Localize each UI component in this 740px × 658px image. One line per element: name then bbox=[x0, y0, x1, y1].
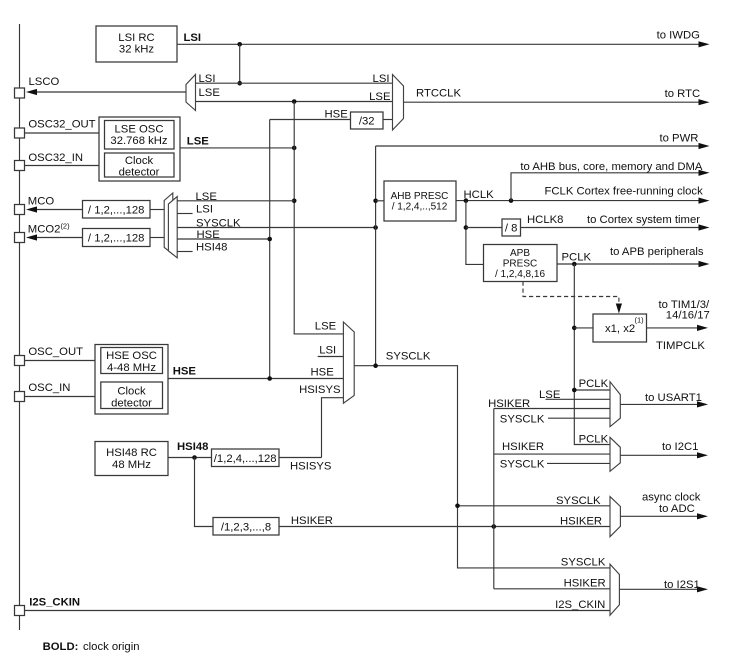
svg-text:to RTC: to RTC bbox=[665, 88, 701, 100]
mux USART1 bbox=[610, 382, 620, 427]
arrow to I2S1 bbox=[697, 586, 708, 592]
left GPIO bus line bbox=[19, 24, 21, 630]
svg-text:I2S_CKIN: I2S_CKIN bbox=[555, 599, 605, 611]
svg-text:LSE: LSE bbox=[369, 91, 391, 103]
divider MCO / 1,2,...,128 bbox=[83, 201, 151, 219]
svg-text:Clock: Clock bbox=[125, 155, 154, 167]
svg-text:HCLK: HCLK bbox=[464, 189, 495, 201]
pin MCO bbox=[15, 196, 55, 215]
arrow to TIM bbox=[697, 325, 708, 331]
svg-text:clock origin: clock origin bbox=[83, 641, 140, 653]
junction HSE at MCO branch bbox=[267, 237, 272, 242]
svg-text:LSI: LSI bbox=[199, 73, 216, 85]
divider MCO2 / 1,2,...,128 bbox=[83, 229, 151, 247]
divider HSIKER /1,2,3,...,8 bbox=[213, 518, 279, 536]
wire PCLK vertical trunk bbox=[574, 264, 610, 445]
wire into x1,x2 bbox=[574, 327, 593, 329]
svg-text:OSC_OUT: OSC_OUT bbox=[28, 346, 83, 358]
wire to I2C1 bbox=[620, 454, 697, 456]
svg-text:SYSCLK: SYSCLK bbox=[556, 495, 601, 507]
svg-text:to APB peripherals: to APB peripherals bbox=[610, 246, 704, 258]
junction LSE bbox=[292, 146, 297, 151]
svg-text:HSI48: HSI48 bbox=[177, 441, 208, 453]
svg-text:32.768 kHz: 32.768 kHz bbox=[110, 135, 167, 147]
pin MCO2 bbox=[15, 221, 71, 242]
wire HSIKER main bbox=[279, 526, 610, 528]
svg-text:HSIKER: HSIKER bbox=[560, 516, 602, 528]
arrow to USART1 bbox=[697, 401, 708, 407]
oscillator LSE OSC 32.768 kHz with clock detector bbox=[99, 117, 180, 181]
svg-text:/1,2,4,...,128: /1,2,4,...,128 bbox=[214, 453, 277, 465]
wire TIMPCLK output bbox=[647, 327, 698, 329]
junction HSIKER trunk bbox=[492, 524, 497, 529]
svg-text:LSI: LSI bbox=[319, 345, 336, 357]
arrow down into x1,x2 bbox=[616, 304, 622, 314]
svg-text:HSIKER: HSIKER bbox=[502, 441, 544, 453]
svg-text:HSE: HSE bbox=[197, 229, 221, 241]
svg-text:LSE: LSE bbox=[187, 136, 209, 148]
wire LSE input to MCO mux bbox=[177, 200, 294, 202]
svg-text:48 MHz: 48 MHz bbox=[112, 459, 151, 471]
svg-text:to USART1: to USART1 bbox=[645, 392, 702, 404]
arrow FCLK bbox=[699, 198, 710, 204]
svg-text:HSISYS: HSISYS bbox=[299, 384, 341, 396]
wire OSC_OUT bbox=[25, 360, 96, 362]
wire LSI vertical drop bbox=[239, 44, 241, 83]
mux I2C1 bbox=[610, 437, 620, 471]
svg-text:HSI48 RC: HSI48 RC bbox=[106, 447, 157, 459]
wire LSE vertical trunk to SYSCLK mux bbox=[294, 102, 343, 334]
svg-text:to I2S1: to I2S1 bbox=[664, 579, 700, 591]
svg-text:/ 1,2,4,..,512: / 1,2,4,..,512 bbox=[392, 202, 448, 213]
arrow to PWR bbox=[699, 143, 710, 149]
svg-text:AHB PRESC: AHB PRESC bbox=[391, 191, 449, 202]
wire to PWR bbox=[376, 145, 700, 147]
wire SYSCLK output bbox=[354, 366, 610, 568]
oscillator HSI48 RC 48 MHz bbox=[95, 442, 168, 476]
wire to AHB bus bbox=[511, 173, 700, 201]
svg-text:HSIKER: HSIKER bbox=[291, 515, 333, 527]
wire HSI48 drop to kernel divider bbox=[195, 458, 214, 527]
svg-text:LSE OSC: LSE OSC bbox=[115, 124, 164, 136]
svg-text:LSCO: LSCO bbox=[29, 76, 60, 88]
wire LSI stub to MCO mux bbox=[177, 213, 192, 215]
svg-text:LSE: LSE bbox=[199, 87, 221, 99]
svg-text:/32: /32 bbox=[359, 116, 375, 128]
svg-text:HSI48: HSI48 bbox=[196, 242, 227, 254]
wire LSE between LSCO mux and RTC mux bbox=[196, 101, 393, 103]
wire async clock to ADC bbox=[620, 515, 697, 517]
wire HSE input to MCO mux bbox=[177, 238, 270, 240]
svg-text:PCLK: PCLK bbox=[579, 378, 609, 390]
wire HSE from oscillator to SYSCLK mux bbox=[168, 378, 343, 380]
junction HCLK8 branch bbox=[464, 225, 469, 230]
wire LSI between LSCO mux and RTC mux bbox=[196, 82, 393, 84]
svg-text:to IWDG: to IWDG bbox=[657, 30, 700, 42]
wire SYSCLK stub into I2C mux bbox=[547, 462, 610, 464]
wire into AHB PRESC bbox=[376, 200, 384, 202]
junction SYSCLK output bbox=[373, 363, 378, 368]
svg-text:LSI: LSI bbox=[184, 32, 202, 44]
svg-text:SYSCLK: SYSCLK bbox=[386, 351, 431, 363]
svg-text:LSI RC: LSI RC bbox=[118, 32, 154, 44]
wire /32 to RTC mux bbox=[383, 119, 393, 121]
wire HSIKER into USART mux bbox=[494, 408, 610, 410]
wire SYSCLK input to MCO mux bbox=[177, 227, 375, 229]
arrow into MCO2 pin bbox=[26, 234, 37, 240]
wire SYSCLK stub into USART mux bbox=[548, 417, 610, 419]
junction SYSCLK at MCO branch bbox=[373, 225, 378, 230]
divider /32 bbox=[351, 112, 384, 129]
svg-text:FCLK Cortex free-running clock: FCLK Cortex free-running clock bbox=[545, 186, 704, 198]
wire LSI stub to SYSCLK mux bbox=[318, 356, 344, 358]
wire HSI48 to divider bbox=[168, 457, 212, 459]
svg-text:HSE: HSE bbox=[311, 367, 335, 379]
arrow to IWDG bbox=[699, 41, 710, 47]
svg-text:SYSCLK: SYSCLK bbox=[500, 459, 545, 471]
wire HCLK vertical trunk bbox=[466, 201, 484, 265]
svg-text:LSE: LSE bbox=[196, 191, 218, 203]
svg-text:HSE OSC: HSE OSC bbox=[106, 350, 157, 362]
wire HSE vertical trunk bbox=[269, 120, 271, 379]
junction PCLK USART bbox=[572, 388, 577, 393]
svg-text:Clock: Clock bbox=[117, 386, 146, 398]
svg-text:OSC32_IN: OSC32_IN bbox=[28, 152, 83, 164]
svg-text:(1): (1) bbox=[635, 316, 645, 325]
junction HSE bbox=[267, 376, 272, 381]
svg-text:to ADC: to ADC bbox=[659, 503, 695, 515]
wire SYSCLK vertical trunk (left) bbox=[375, 146, 377, 366]
wire PCLK into USART mux bbox=[574, 389, 610, 391]
mux RTCCLK bbox=[393, 75, 404, 131]
svg-text:SYSCLK: SYSCLK bbox=[561, 557, 606, 569]
wire divider to MCO mux bbox=[150, 209, 164, 211]
wire LSI to IWDG bbox=[177, 43, 700, 45]
note BOLD: clock origin bbox=[43, 641, 140, 653]
wire HSISYS into SYSCLK mux bbox=[322, 398, 344, 458]
wire HCLK / FCLK bbox=[456, 200, 700, 202]
svg-text:x1, x2: x1, x2 bbox=[605, 323, 635, 335]
mux ADC bbox=[610, 497, 620, 537]
svg-text:HSE: HSE bbox=[325, 109, 349, 121]
wire HSIKER into I2S mux bbox=[494, 588, 610, 590]
svg-text:HSIKER: HSIKER bbox=[564, 578, 606, 590]
arrow to ADC bbox=[697, 513, 708, 519]
svg-text:HCLK8: HCLK8 bbox=[527, 214, 563, 226]
svg-text:TIMPCLK: TIMPCLK bbox=[656, 340, 705, 352]
svg-text:HSIKER: HSIKER bbox=[488, 398, 530, 410]
mux MCO (double) bbox=[164, 193, 177, 258]
svg-text:HSISYS: HSISYS bbox=[290, 461, 332, 473]
pin I2S_CKIN bbox=[15, 596, 81, 615]
oscillator LSI RC 32 kHz bbox=[96, 26, 177, 62]
svg-text:/ 1,2,4,8,16: / 1,2,4,8,16 bbox=[495, 269, 545, 280]
svg-text:/ 1,2,...,128: / 1,2,...,128 bbox=[88, 204, 145, 216]
junction AHB branch bbox=[509, 198, 514, 203]
svg-text:OSC32_OUT: OSC32_OUT bbox=[28, 118, 95, 130]
arrow into MCO pin bbox=[26, 206, 37, 212]
wire LSE stub into USART mux bbox=[546, 398, 611, 400]
divider HSISYS /1,2,4,...,128 bbox=[212, 449, 280, 467]
wire OSC32_IN bbox=[25, 165, 100, 167]
svg-text:BOLD:: BOLD: bbox=[43, 641, 79, 653]
svg-text:SYSCLK: SYSCLK bbox=[500, 414, 545, 426]
wire HSIKER vertical trunk bbox=[493, 409, 495, 589]
svg-text:OSC_IN: OSC_IN bbox=[28, 382, 70, 394]
svg-text:LSI: LSI bbox=[196, 204, 213, 216]
wire HSE to /32 divider bbox=[270, 119, 351, 121]
svg-text:PCLK: PCLK bbox=[579, 434, 609, 446]
wire to I2S1 bbox=[619, 588, 697, 590]
wire HSIKER into I2C mux bbox=[494, 453, 610, 455]
junction SYSCLK ADC bbox=[455, 504, 460, 509]
mux LSCO bbox=[186, 75, 196, 111]
svg-text:HSE: HSE bbox=[173, 366, 197, 378]
junction PCLK bbox=[572, 262, 577, 267]
wire LSE from oscillator bbox=[180, 147, 294, 149]
junction HCLK bbox=[464, 198, 469, 203]
oscillator HSE OSC 4-48 MHz with clock detector bbox=[95, 345, 168, 415]
svg-text:detector: detector bbox=[111, 398, 152, 410]
arrow to AHB bus bbox=[699, 170, 710, 176]
pin OSC_OUT bbox=[15, 346, 84, 365]
svg-text:LSE: LSE bbox=[539, 389, 561, 401]
junction LSI bbox=[237, 42, 242, 47]
svg-text:detector: detector bbox=[119, 166, 160, 178]
wire RTCCLK to RTC bbox=[404, 101, 700, 103]
pin OSC32_OUT bbox=[15, 118, 96, 138]
wire OSC_IN bbox=[25, 396, 96, 398]
svg-text:MCO: MCO bbox=[28, 196, 55, 208]
junction LSI on RTC input wire bbox=[237, 81, 242, 86]
prescaler AHB PRESC bbox=[384, 181, 456, 221]
arrow into LSCO pin bbox=[26, 89, 37, 95]
svg-text:SYSCLK: SYSCLK bbox=[196, 218, 241, 230]
multiplier x1, x2 bbox=[593, 314, 647, 342]
junction x1,x2 input bbox=[572, 326, 577, 331]
svg-text:PRESC: PRESC bbox=[503, 258, 537, 269]
arrow to Cortex system timer bbox=[699, 224, 710, 230]
wire HCLK8 bbox=[466, 227, 700, 229]
wire PCLK to APB peripherals bbox=[557, 263, 700, 265]
pin OSC32_IN bbox=[15, 152, 84, 171]
svg-text:to I2C1: to I2C1 bbox=[662, 441, 698, 453]
dashed wire APB PRESC to x1,x2 bbox=[523, 282, 619, 305]
pin LSCO bbox=[15, 76, 60, 98]
svg-text:RTCCLK: RTCCLK bbox=[416, 88, 461, 100]
wire I2S_CKIN bbox=[25, 610, 611, 612]
svg-text:I2S_CKIN: I2S_CKIN bbox=[29, 596, 80, 608]
wire HSISYS from divider bbox=[279, 457, 322, 459]
wire LSCO output to pin bbox=[36, 91, 186, 93]
svg-text:4-48 MHz: 4-48 MHz bbox=[107, 362, 156, 374]
pin OSC_IN bbox=[15, 382, 71, 402]
junction HSI48 bbox=[192, 455, 197, 460]
svg-text:async clock: async clock bbox=[642, 492, 701, 504]
mux SYSCLK bbox=[343, 322, 354, 403]
junction LSE at MCO branch bbox=[292, 199, 297, 204]
svg-text:/ 8: / 8 bbox=[505, 223, 518, 235]
svg-text:/ 1,2,...,128: / 1,2,...,128 bbox=[88, 233, 145, 245]
wire MCO2 to pin bbox=[36, 237, 83, 239]
prescaler APB PRESC bbox=[484, 245, 558, 282]
arrow to APB peripherals bbox=[699, 261, 710, 267]
wire MCO to pin bbox=[36, 209, 83, 211]
arrow to RTC bbox=[699, 99, 710, 105]
wire OSC32_OUT bbox=[25, 132, 100, 134]
mux I2S1 bbox=[610, 564, 619, 615]
svg-text:32 kHz: 32 kHz bbox=[119, 44, 155, 56]
svg-text:PCLK: PCLK bbox=[562, 252, 592, 264]
svg-text:to AHB bus, core, memory and D: to AHB bus, core, memory and DMA bbox=[520, 161, 703, 173]
junction SYSCLK at AHB input bbox=[373, 199, 378, 204]
svg-text:to PWR: to PWR bbox=[660, 133, 699, 145]
svg-text:14/16/17: 14/16/17 bbox=[666, 309, 710, 321]
wire to USART1 bbox=[620, 403, 697, 405]
wire SYSCLK into ADC mux bbox=[458, 505, 611, 507]
wire divider to MCO mux bbox=[150, 237, 164, 239]
svg-text:APB: APB bbox=[510, 248, 530, 259]
svg-text:/1,2,3,...,8: /1,2,3,...,8 bbox=[221, 521, 271, 533]
svg-text:to Cortex system timer: to Cortex system timer bbox=[587, 214, 700, 226]
wire HSI48 stub to MCO mux bbox=[177, 251, 192, 253]
junction LSE trunk top bbox=[292, 99, 297, 104]
divider / 8 bbox=[502, 219, 521, 236]
svg-text:LSI: LSI bbox=[373, 73, 390, 85]
arrow to I2C1 bbox=[697, 452, 708, 458]
svg-text:LSE: LSE bbox=[315, 321, 337, 333]
